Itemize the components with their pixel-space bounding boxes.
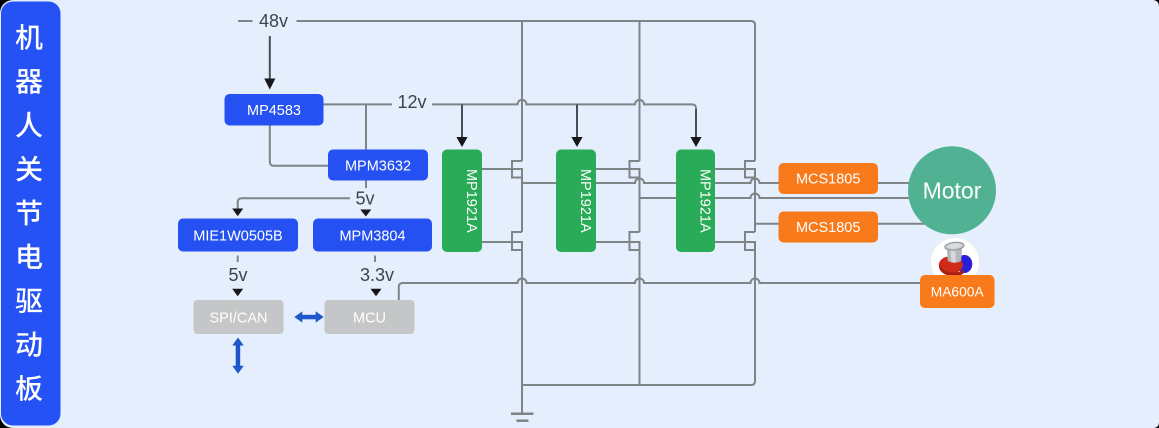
block SPI/CAN	[194, 300, 284, 334]
wire phase C from bus3 to MCS1805#2	[755, 223, 779, 225]
transistor low-side jog bus1	[512, 232, 522, 242]
arrow 5v into SPI/CAN	[232, 289, 243, 297]
transistor high-side jog bus3	[745, 161, 755, 169]
svg-text:MP4583: MP4583	[247, 103, 301, 119]
arrow 5v into MIE1W0505B	[232, 209, 243, 217]
svg-text:12v: 12v	[397, 92, 426, 112]
svg-text:MP1921A: MP1921A	[577, 169, 593, 233]
svg-text:3.3v: 3.3v	[360, 265, 394, 285]
svg-text:Motor: Motor	[923, 177, 982, 203]
wire 12v tap to MPM3632	[365, 104, 367, 149]
wire phase B from bus2 to Motor with hop	[640, 194, 913, 199]
arrow 12v into U2	[571, 104, 582, 147]
svg-text:5v: 5v	[228, 265, 247, 285]
transistor Q3 high square	[630, 169, 640, 178]
svg-text:MIE1W0505B: MIE1W0505B	[193, 229, 282, 245]
arrow 12v into U1	[456, 104, 467, 147]
Motor	[908, 146, 996, 234]
block MCU	[325, 300, 415, 334]
ground	[511, 414, 534, 421]
svg-text:MP1921A: MP1921A	[697, 169, 713, 233]
wire bus3 mid	[754, 178, 756, 233]
regulator MP4583	[225, 94, 324, 126]
blue double arrow below SPI/CAN	[232, 338, 243, 374]
magnet icon	[931, 238, 980, 287]
wire bus1 mid	[521, 178, 523, 233]
gate driver U1 MP1921A	[442, 150, 482, 253]
transistor low-side jog bus3	[745, 232, 755, 242]
wire 5v rail to MIE1W0505B corner	[238, 198, 350, 208]
svg-text:48v: 48v	[259, 11, 288, 31]
svg-text:MA600A: MA600A	[931, 285, 985, 300]
arrow 48v into MP4583	[264, 36, 275, 90]
wire 48v top rail to bus3 corner	[297, 21, 756, 161]
wire gate line green3 low	[715, 241, 745, 243]
arrow 5v into MPM3804	[360, 210, 371, 217]
wire MCS1805#1 to Motor	[878, 182, 913, 184]
svg-text:MCS1805: MCS1805	[796, 172, 860, 188]
svg-text:5v: 5v	[355, 188, 374, 208]
wire 48v rail dash	[238, 20, 253, 22]
angle sensor MA600A	[920, 275, 995, 308]
arrow 12v into U3	[690, 109, 701, 147]
svg-text:MCS1805: MCS1805	[796, 220, 860, 236]
current sensor MCS1805 #2	[779, 212, 879, 243]
svg-text:MPM3632: MPM3632	[345, 159, 411, 175]
wire bus3 lower + bottom bus	[522, 250, 755, 385]
wire MP4583 down to MPM3632	[270, 126, 328, 166]
svg-text:SPI/CAN: SPI/CAN	[209, 311, 267, 327]
gate driver U2 MP1921A	[556, 150, 596, 253]
wire phase A from bus1 to MCS1805#1 with hops	[522, 179, 779, 184]
arrow 3.3v into MCU	[371, 289, 382, 297]
wire gate line green2 high	[596, 168, 630, 170]
wire MA600A sensor line to MCU with hops	[399, 279, 920, 301]
transistor Q1 high square	[512, 169, 522, 178]
wire bus2 vertical 48v	[639, 21, 641, 161]
transistor high-side jog bus2	[630, 161, 640, 169]
wire bus1 lower + ground stem	[521, 250, 523, 413]
transistor Q6 low square	[745, 242, 755, 250]
transistor Q4 low square	[630, 242, 640, 250]
blue double arrow SPI/CAN-MCU	[294, 311, 323, 322]
transistor low-side jog bus2	[630, 232, 640, 242]
wire 12v rail from MP4583	[324, 103, 393, 105]
gate driver U3 MP1921A	[676, 150, 715, 253]
wire bus2 mid	[639, 178, 641, 233]
svg-text:MP1921A: MP1921A	[463, 169, 479, 233]
regulator MIE1W0505B	[178, 219, 298, 252]
wire gate line green3 high	[715, 168, 745, 170]
transistor Q5 high square	[745, 169, 755, 178]
sidebar panel 机器人关节电驱动板	[1, 2, 61, 426]
wire MCS1805#2 to Motor	[878, 223, 926, 225]
regulator MPM3632	[328, 150, 428, 181]
svg-text:MPM3804: MPM3804	[339, 229, 405, 245]
wire stub below MPM3804	[374, 256, 376, 263]
transistor high-side jog bus1	[512, 161, 522, 169]
wire stub below MIE1W0505B	[237, 256, 239, 263]
wire gate line green2 low	[596, 241, 630, 243]
wire 12v rail with hops over bus1 bus2, corner down to U3 arrow	[432, 100, 696, 135]
current sensor MCS1805 #1	[779, 163, 879, 194]
wire stub below MPM3632	[365, 181, 367, 189]
wire bus1 vertical 48v	[521, 21, 523, 161]
wire gate line green1 high	[482, 168, 512, 170]
wire bus2 lower	[639, 250, 641, 385]
transistor Q2 low square	[512, 242, 522, 250]
svg-text:MCU: MCU	[353, 311, 386, 327]
regulator MPM3804	[313, 219, 432, 252]
wire gate line green1 low	[482, 241, 512, 243]
